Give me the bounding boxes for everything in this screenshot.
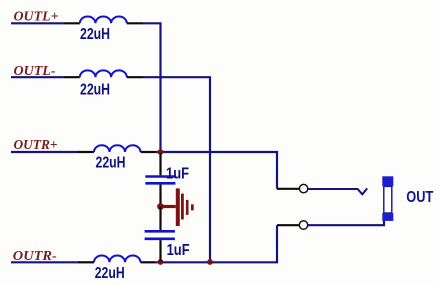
jack sleeve lead stub [277, 224, 299, 226]
inductor L2 lead right [127, 76, 143, 78]
capacitor C2 lead top [159, 207, 161, 231]
connector J1 phone jack body [382, 176, 393, 221]
svg-text:22uH: 22uH [80, 82, 110, 99]
svg-text:1uF: 1uF [167, 242, 190, 259]
wire OUTL- rail right segment with corner down to OUTR- rail [143, 77, 210, 262]
inductor L4 lead left [78, 261, 94, 263]
wire OUTR- rail right segment to jack elbow up [155, 225, 277, 262]
ground symbol [161, 188, 194, 226]
inductor L4 coil [94, 255, 141, 262]
inductor L3 lead left [78, 151, 94, 153]
inductor L1 coil [80, 16, 127, 23]
inductor L3 coil [94, 145, 141, 152]
wire OUTL- rail left segment [11, 76, 63, 78]
svg-text:22uH: 22uH [95, 265, 125, 282]
inductor L1 lead right [127, 22, 143, 24]
jack terminal circle bottom [299, 221, 307, 229]
junction dot OUTR- / OUTL- vertical [207, 259, 213, 265]
wire OUTL+ rail right segment with corner down to OUTR+ junction [143, 23, 161, 152]
jack switch lead (tip contact stub) [277, 188, 299, 190]
svg-text:22uH: 22uH [80, 26, 110, 43]
inductor L2 lead left [63, 76, 80, 78]
capacitor C2 lead bottom [159, 240, 161, 261]
jack terminal circle top [299, 184, 307, 192]
svg-text:OUT: OUT [406, 189, 433, 206]
junction dot OUTR- / capacitor chain [158, 259, 164, 265]
wire OUTR- rail left segment [11, 261, 78, 263]
svg-text:OUTL+: OUTL+ [14, 9, 59, 24]
inductor L3 lead right [141, 151, 156, 153]
wire OUTR+ rail right segment to jack elbow [155, 152, 277, 189]
junction dot ground node [157, 203, 164, 210]
inductor L2 coil [80, 70, 127, 77]
capacitor C2 plates [145, 231, 175, 239]
wire sleeve to jack body [308, 219, 384, 225]
junction dot OUTR+ / capacitor chain [158, 149, 164, 155]
capacitor C1 lead top [159, 153, 161, 175]
inductor L1 lead left [63, 22, 80, 24]
wire OUTR+ rail left segment [11, 151, 78, 153]
capacitor C1 plates [145, 177, 176, 184]
wire OUTL+ rail left segment [11, 22, 63, 24]
inductor L4 lead right [141, 261, 156, 263]
wire tip contact with switch v [308, 188, 367, 194]
svg-text:OUTR+: OUTR+ [14, 138, 58, 153]
svg-text:22uH: 22uH [96, 155, 126, 172]
capacitor C1 lead bottom [159, 185, 161, 207]
svg-text:1uF: 1uF [166, 165, 189, 182]
